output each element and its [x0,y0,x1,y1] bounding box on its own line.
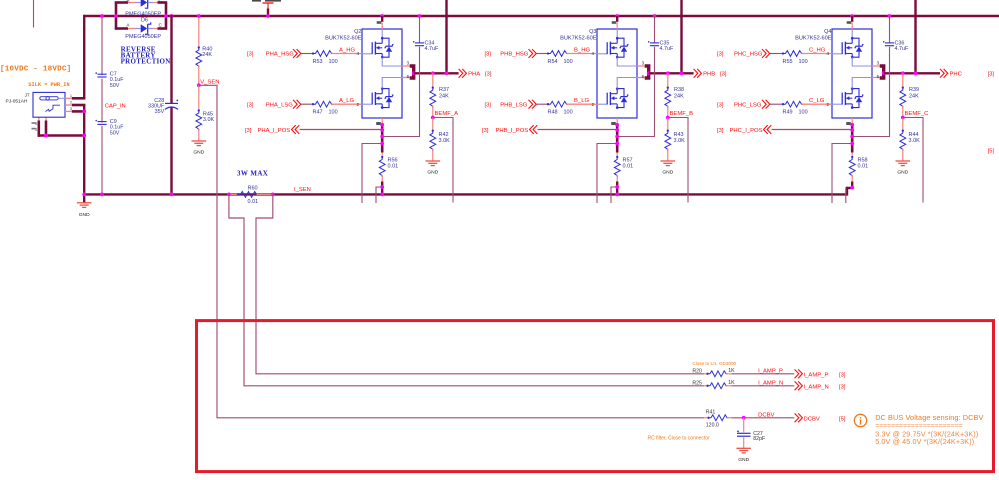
svg-text:Close to U1, GD3000: Close to U1, GD3000 [692,361,736,366]
svg-text:R55: R55 [783,59,793,65]
svg-text:[3]: [3] [839,385,846,391]
svg-text:PHC_LSG: PHC_LSG [734,102,762,108]
svg-text:1: 1 [70,94,72,98]
svg-text:3.0K: 3.0K [439,138,451,144]
svg-text:PHB_I_POS: PHB_I_POS [496,128,529,134]
svg-text:R53: R53 [313,59,323,65]
svg-text:PHA_LSG: PHA_LSG [266,102,294,108]
svg-text:1K: 1K [728,380,735,386]
svg-text:3: 3 [70,107,72,111]
svg-text:4.7uF: 4.7uF [425,46,439,52]
svg-text:24K: 24K [439,93,449,99]
svg-text:C_LG: C_LG [809,98,825,104]
svg-text:0.01: 0.01 [858,163,869,169]
svg-text:GND: GND [79,212,90,218]
svg-text:V_SEN: V_SEN [200,80,219,86]
svg-text:DCBV: DCBV [804,416,820,422]
svg-text:R47: R47 [313,110,323,116]
svg-text:DC BUS Voltage sensing: DCBV: DC BUS Voltage sensing: DCBV [875,413,983,422]
svg-text:82pF: 82pF [753,436,765,442]
svg-text:[5]: [5] [988,149,995,155]
svg-text:0.01: 0.01 [388,163,399,169]
svg-text:[3]: [3] [485,72,492,78]
svg-text:SILK = PWR_IN: SILK = PWR_IN [28,82,69,88]
svg-text:24K: 24K [202,52,212,58]
svg-text:3.0K: 3.0K [909,138,921,144]
svg-text:GND: GND [193,150,204,156]
svg-text:R20: R20 [692,368,702,374]
svg-text:i: i [859,416,862,427]
svg-text:BEMF_B: BEMF_B [670,111,694,117]
svg-text:I_AMP_N: I_AMP_N [758,380,783,386]
svg-text:100: 100 [329,59,338,65]
svg-text:R25: R25 [692,380,702,386]
svg-text:R48: R48 [548,110,558,116]
svg-text:120.0: 120.0 [706,423,719,429]
svg-text:3.0K: 3.0K [203,117,215,123]
svg-text:A_HG: A_HG [339,47,355,53]
svg-text:DCBV: DCBV [758,413,774,419]
svg-text:[3]: [3] [247,102,254,108]
svg-text:C_HG: C_HG [809,47,826,53]
svg-text:[3]: [3] [245,128,252,134]
svg-text:GND: GND [738,457,749,463]
svg-text:R41: R41 [706,409,716,415]
svg-text:I_SEN: I_SEN [294,187,311,193]
svg-text:GND: GND [897,170,908,176]
svg-text:Q3: Q3 [589,29,596,35]
svg-text:GND: GND [427,170,438,176]
svg-text:PHA_I_POS: PHA_I_POS [258,128,291,134]
svg-text:BUK7K52-60E: BUK7K52-60E [560,35,597,41]
svg-text:[3]: [3] [485,102,492,108]
svg-text:0.01: 0.01 [248,199,259,205]
svg-text:Q2: Q2 [354,29,361,35]
svg-text:BUK7K52-60E: BUK7K52-60E [325,35,362,41]
svg-text:R39: R39 [909,87,919,93]
svg-text:50V: 50V [110,130,120,136]
svg-text:BUK7K52-60E: BUK7K52-60E [795,35,832,41]
svg-text:35V: 35V [155,109,165,115]
svg-text:D6: D6 [141,17,148,23]
svg-text:100: 100 [329,110,338,116]
svg-text:24K: 24K [909,93,919,99]
svg-text:R60: R60 [248,185,258,191]
svg-text:[3]: [3] [485,52,492,58]
svg-text:[3]: [3] [717,52,724,58]
svg-text:B_HG: B_HG [574,47,590,53]
svg-text:R37: R37 [439,87,449,93]
svg-text:PHC: PHC [950,72,963,78]
svg-text:======================: ====================== [875,423,962,430]
svg-text:[3]: [3] [839,373,846,379]
svg-text:BEMF_A: BEMF_A [435,111,459,117]
svg-text:1K: 1K [728,368,735,374]
svg-text:R49: R49 [783,110,793,116]
svg-text:BEMF_C: BEMF_C [905,111,930,117]
svg-text:3.0K: 3.0K [674,138,686,144]
svg-text:CAP_IN: CAP_IN [105,103,126,109]
svg-text:100: 100 [564,110,573,116]
svg-text:[3]: [3] [482,128,489,134]
svg-text:100: 100 [799,59,808,65]
svg-text:2: 2 [70,101,72,105]
svg-text:[3]: [3] [720,72,727,78]
svg-text:[5]: [5] [839,417,846,423]
svg-text:PROTECTION: PROTECTION [121,58,171,66]
svg-text:I_AMP_N: I_AMP_N [804,384,829,390]
svg-text:PMEG4050EP: PMEG4050EP [125,34,161,40]
svg-text:[3]: [3] [988,72,995,78]
svg-text:PHA: PHA [468,72,480,78]
svg-text:GND: GND [662,170,673,176]
svg-text:[3]: [3] [717,128,724,134]
svg-text:PHA_HSG: PHA_HSG [266,52,295,58]
svg-text:0.01: 0.01 [623,163,634,169]
svg-text:PHC_HSG: PHC_HSG [734,52,763,58]
svg-text:PHC_I_POS: PHC_I_POS [730,128,763,134]
svg-text:[3]: [3] [717,102,724,108]
svg-text:A_LG: A_LG [339,98,354,104]
svg-text:PHB_HSG: PHB_HSG [500,52,529,58]
svg-text:B_LG: B_LG [574,98,589,104]
svg-text:100: 100 [799,110,808,116]
svg-text:R54: R54 [548,59,558,65]
svg-text:PJ-051AH: PJ-051AH [6,99,28,105]
svg-text:4.7uF: 4.7uF [895,46,909,52]
svg-text:RC filter, Close to connector: RC filter, Close to connector [648,435,711,441]
svg-text:24K: 24K [674,93,684,99]
svg-text:Q4: Q4 [824,29,831,35]
svg-text:R38: R38 [674,87,684,93]
svg-text:I_AMP_P: I_AMP_P [804,372,829,378]
svg-text:PHB: PHB [703,72,715,78]
svg-text:[10VDC - 18VDC]: [10VDC - 18VDC] [0,66,71,74]
svg-text:I_AMP_P: I_AMP_P [758,368,783,374]
svg-text:3W MAX: 3W MAX [237,169,268,177]
svg-text:J7: J7 [25,93,30,98]
svg-text:[3]: [3] [247,52,254,58]
svg-text:50V: 50V [110,83,120,89]
svg-text:4.7uF: 4.7uF [660,46,674,52]
svg-text:PHB_LSG: PHB_LSG [500,102,528,108]
svg-text:100: 100 [564,59,573,65]
svg-text:5.0V @ 45.0V *(3K/(24K+3K)): 5.0V @ 45.0V *(3K/(24K+3K)) [875,437,974,446]
